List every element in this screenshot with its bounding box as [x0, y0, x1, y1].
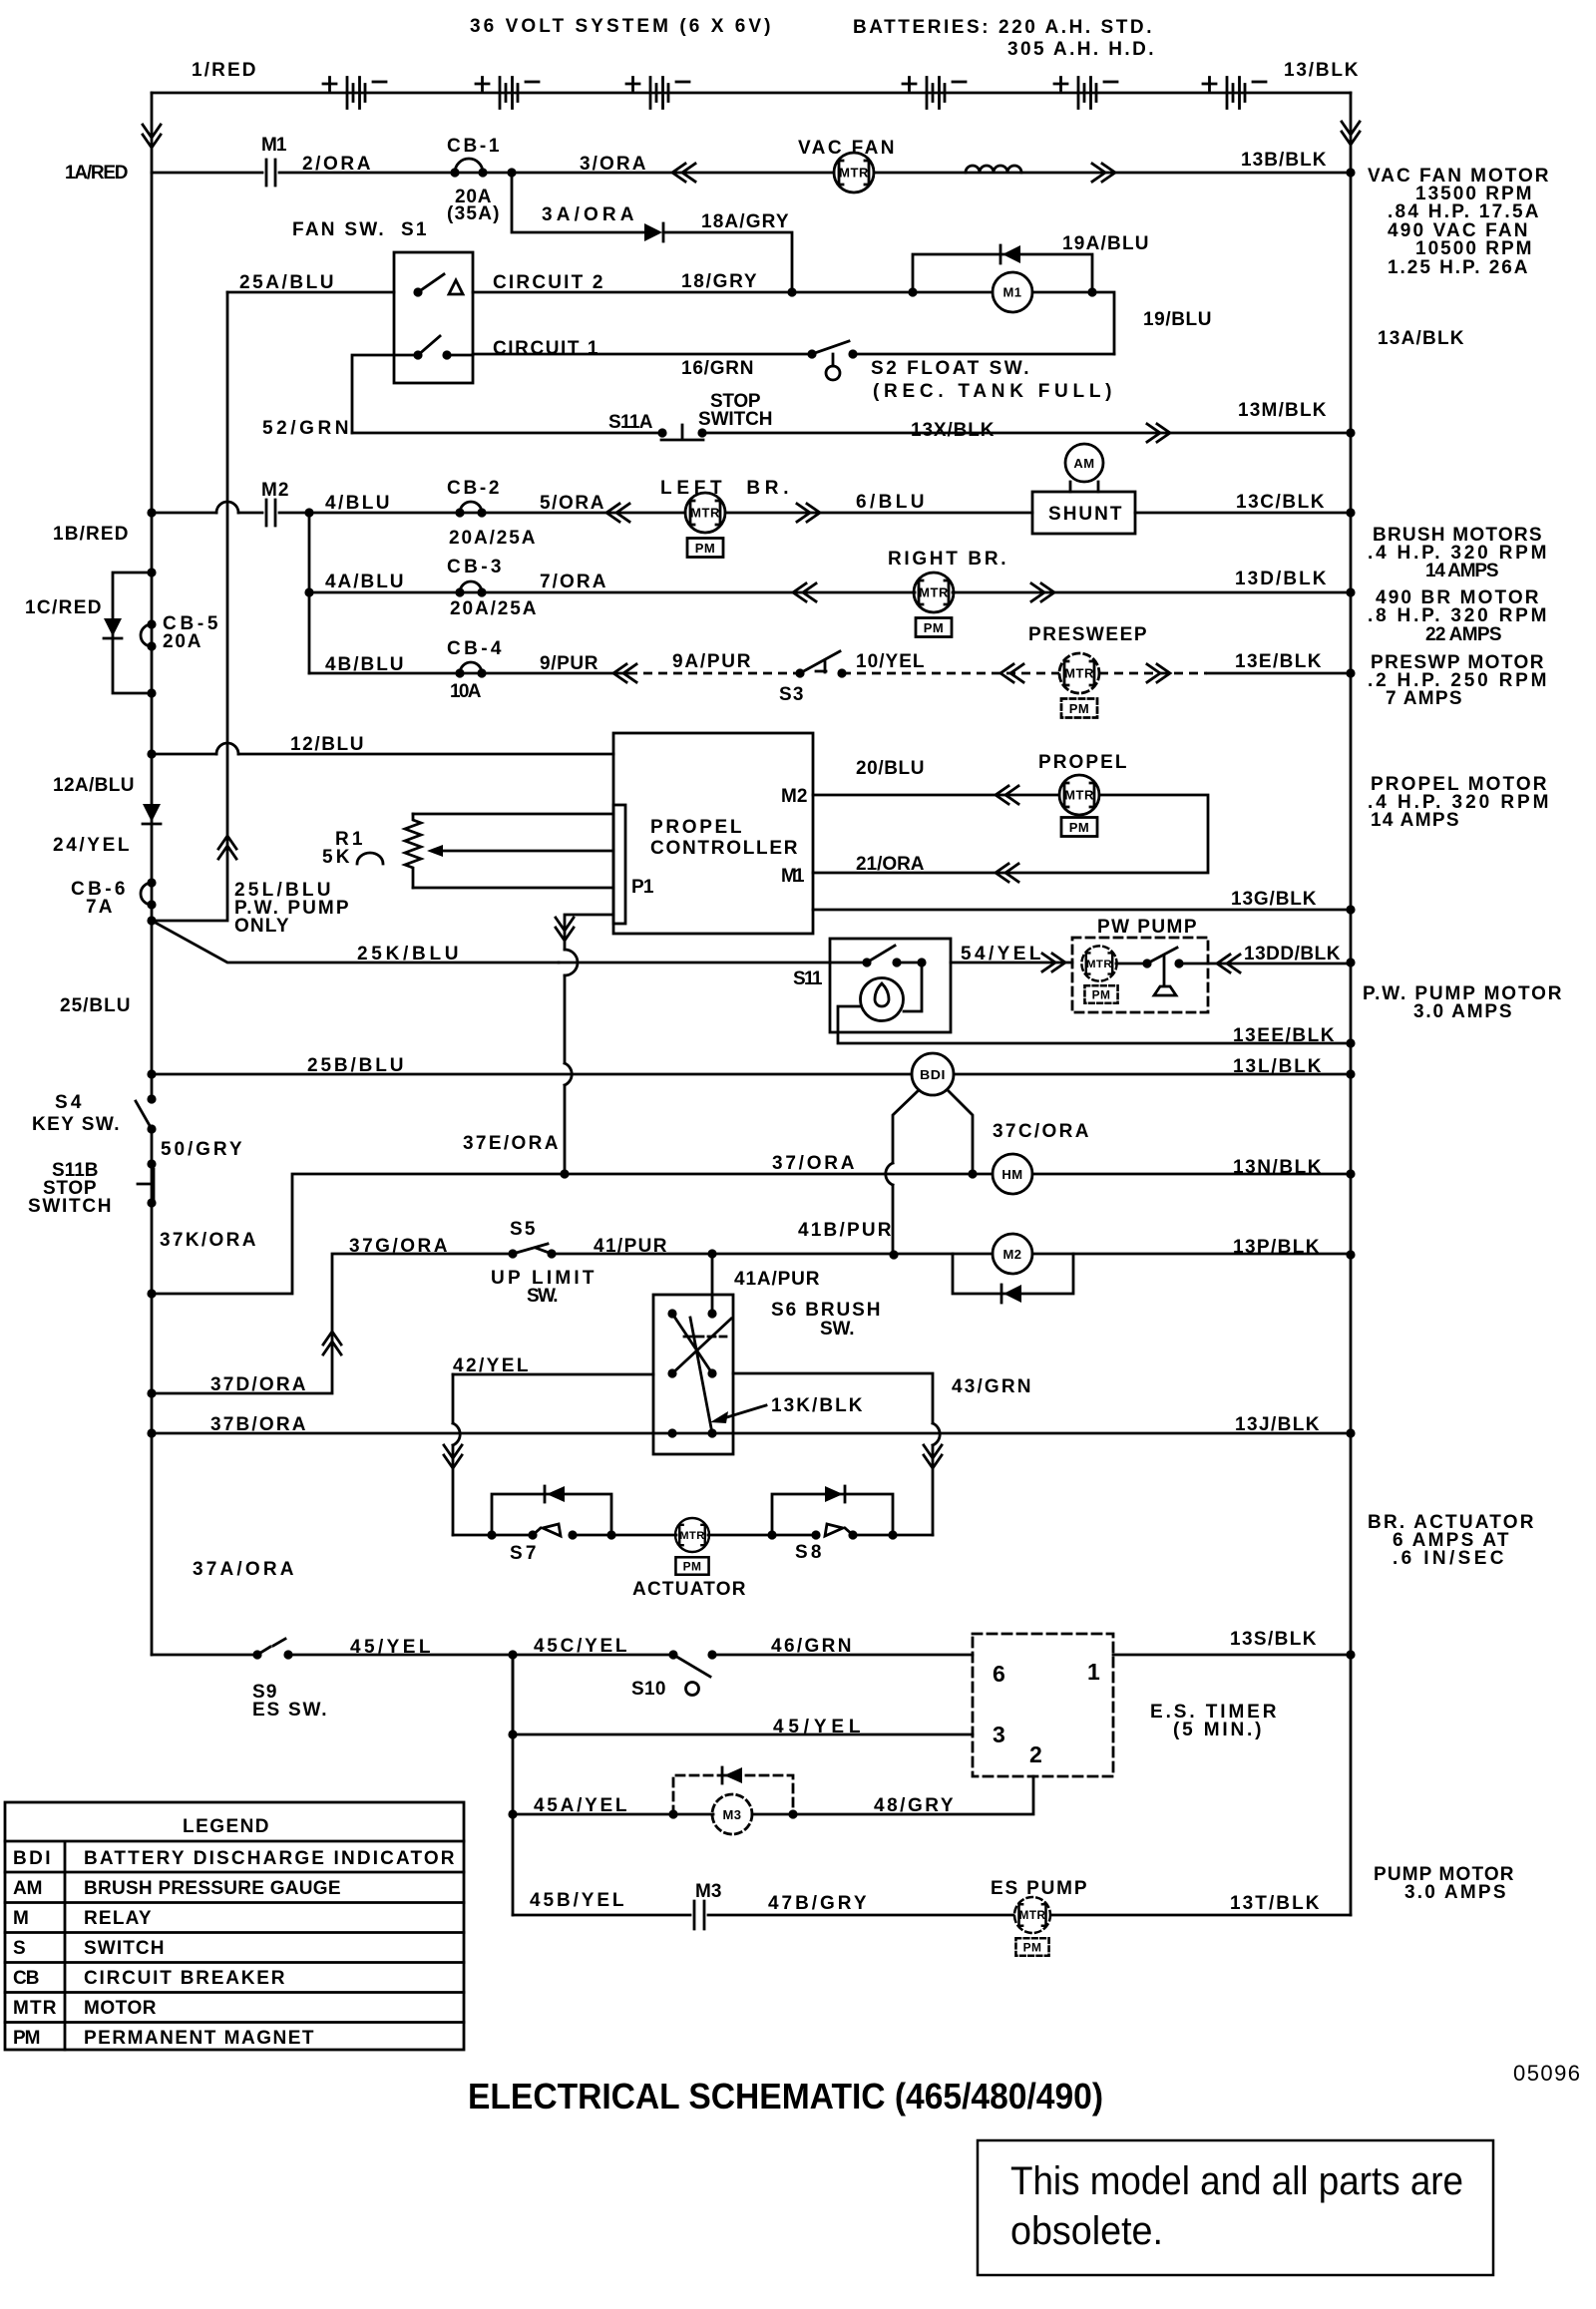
arrow up on riser — [218, 836, 236, 859]
svg-text:ES PUMP: ES PUMP — [991, 1878, 1088, 1899]
svg-text:1C/RED: 1C/RED — [25, 597, 103, 618]
svg-text:SWITCH: SWITCH — [698, 409, 774, 430]
relay coil M2 — [993, 1234, 1032, 1274]
svg-text:RIGHT BR.: RIGHT BR. — [888, 549, 1007, 570]
svg-text:13EE/BLK: 13EE/BLK — [1233, 1025, 1336, 1046]
svg-text:PROPEL: PROPEL — [1038, 752, 1128, 773]
svg-text:S11: S11 — [793, 968, 824, 989]
svg-text:13C/BLK: 13C/BLK — [1236, 492, 1326, 513]
wire row 4A/BLU CB-3 — [309, 591, 1351, 594]
junction node (514,1659) — [508, 1650, 517, 1659]
svg-text:3: 3 — [993, 1722, 1006, 1747]
arrow left 20/BLU — [996, 786, 1018, 804]
motor LEFT BR — [685, 493, 725, 533]
circuit breaker CB-4 — [460, 662, 482, 673]
svg-text:10A: 10A — [450, 681, 483, 702]
wire 37E/ORA from P1 — [565, 915, 613, 1174]
box S11 solution switch — [830, 939, 951, 1032]
wire 41A/PUR drop — [711, 1254, 714, 1314]
arrow right on row 1 — [1092, 164, 1115, 182]
svg-text:13A/BLK: 13A/BLK — [1378, 328, 1465, 349]
svg-text:BRUSH PRESSURE GAUGE: BRUSH PRESSURE GAUGE — [84, 1878, 342, 1899]
motor VAC FAN — [834, 153, 874, 192]
relay contact M1 — [266, 160, 275, 186]
svg-text:14 AMPS: 14 AMPS — [1371, 810, 1460, 831]
svg-text:10500 RPM: 10500 RPM — [1415, 238, 1533, 259]
svg-text:1B/RED: 1B/RED — [53, 524, 130, 545]
svg-text:This model and all parts are: This model and all parts are — [1010, 2159, 1463, 2203]
battery B2 — [476, 78, 539, 109]
junction node (1354,1177) — [1346, 1169, 1355, 1178]
hop over v228 — [216, 502, 238, 513]
legend table — [5, 1802, 464, 2050]
junction node (1354,173) — [1346, 168, 1355, 177]
wire BDI legs — [893, 1090, 973, 1255]
arrow left CB-2 row — [606, 504, 629, 522]
switch S8 — [811, 1530, 820, 1539]
wire 42/YEL row — [453, 1373, 933, 1535]
svg-text:S10: S10 — [631, 1679, 667, 1700]
svg-text:S: S — [13, 1938, 27, 1959]
arrow right CB-3 row — [1031, 583, 1054, 601]
wire 52/GRN row — [352, 432, 1351, 435]
junction node (1354,1258) — [1346, 1250, 1355, 1259]
junction node (514,1819) — [508, 1809, 517, 1818]
svg-text:05096: 05096 — [1513, 2061, 1580, 2086]
wire 13G/BLK — [813, 909, 1351, 912]
svg-text:(REC. TANK FULL): (REC. TANK FULL) — [873, 381, 1113, 402]
wire row 1A/RED to VAC FAN — [152, 172, 1351, 175]
wire row 45B/YEL — [513, 1914, 1351, 1917]
pm box pw pump — [1084, 985, 1117, 1002]
wire row 12/BLU — [147, 749, 156, 758]
wire 1/RED top bus — [152, 92, 1351, 95]
wire 25K/BLU diagonal — [152, 921, 559, 962]
junction node (1354,438) — [1346, 428, 1355, 437]
box S6 BRUSH SW — [653, 1295, 733, 1454]
switch S2 float — [807, 349, 816, 358]
junction node (674,1317) (714,1317) — [667, 1309, 676, 1318]
svg-text:4B/BLU: 4B/BLU — [325, 654, 405, 675]
junction node (461,514) (483,514) — [455, 508, 464, 517]
motor PROPEL — [1059, 775, 1099, 815]
wire drop to CB-3/CB-4 — [308, 513, 311, 673]
svg-text:3.0 AMPS: 3.0 AMPS — [1413, 1001, 1513, 1022]
svg-text:3A/ORA: 3A/ORA — [542, 204, 635, 225]
svg-text:20A/25A: 20A/25A — [450, 598, 538, 619]
svg-text:25B/BLU: 25B/BLU — [307, 1055, 405, 1076]
switch S11 contact — [862, 958, 871, 966]
arrow right 13X — [1147, 424, 1170, 442]
svg-text:AM: AM — [13, 1878, 44, 1899]
svg-text:37K/ORA: 37K/ORA — [160, 1230, 257, 1251]
shunt box — [1032, 492, 1135, 534]
relay contact M3 — [694, 1901, 704, 1929]
diode loop S7 — [492, 1494, 611, 1535]
svg-text:42/YEL: 42/YEL — [453, 1355, 530, 1376]
svg-text:P1: P1 — [631, 877, 655, 898]
svg-text:305 A.H. H.D.: 305 A.H. H.D. — [1007, 39, 1155, 60]
arrow left CB-3 row — [793, 583, 816, 601]
flyback loop 19A/BLU — [913, 254, 1092, 292]
diode D3 1C/RED — [104, 618, 122, 636]
svg-text:AM: AM — [1073, 456, 1094, 471]
switch S10 — [668, 1650, 677, 1659]
battery B6 — [1203, 78, 1266, 109]
svg-text:41A/PUR: 41A/PUR — [734, 1269, 821, 1290]
switch S4 key — [147, 1094, 156, 1103]
svg-text:M3: M3 — [722, 1807, 741, 1822]
switch S6 blades — [672, 1314, 731, 1433]
svg-text:19A/BLU: 19A/BLU — [1062, 233, 1150, 254]
battery B5 — [1054, 78, 1117, 109]
svg-text:CB-1: CB-1 — [447, 136, 501, 157]
arrow right presweep — [1147, 664, 1170, 682]
wire circuit1 left to 52/GRN — [352, 355, 418, 433]
dashed diode loop M3 — [673, 1775, 793, 1814]
svg-text:1.25 H.P. 26A: 1.25 H.P. 26A — [1388, 257, 1529, 278]
svg-text:PW PUMP: PW PUMP — [1097, 917, 1198, 938]
meter AM — [1065, 444, 1103, 482]
wire 37K/ORA riser — [147, 1289, 156, 1298]
svg-text:SWITCH: SWITCH — [84, 1938, 166, 1959]
svg-text:13L/BLK: 13L/BLK — [1233, 1056, 1323, 1077]
svg-text:13X/BLK: 13X/BLK — [911, 420, 996, 441]
wire 25A/BLU — [227, 291, 394, 294]
junction node (1150,966) (1182,966) — [1142, 959, 1151, 967]
svg-text:ONLY: ONLY — [234, 916, 290, 937]
svg-text:CB-2: CB-2 — [447, 478, 501, 499]
svg-text:6/BLU: 6/BLU — [856, 492, 926, 513]
svg-text:13B/BLK: 13B/BLK — [1241, 150, 1328, 171]
svg-text:MOTOR: MOTOR — [84, 1998, 158, 2019]
svg-text:.84 H.P. 17.5A: .84 H.P. 17.5A — [1388, 201, 1540, 222]
circuit breaker CB-6 — [141, 883, 152, 905]
svg-text:13M/BLK: 13M/BLK — [1238, 400, 1328, 421]
svg-text:BATTERY DISCHARGE INDICATOR: BATTERY DISCHARGE INDICATOR — [84, 1848, 456, 1869]
lamp S11 — [861, 978, 904, 1021]
circuit breaker CB-3 — [460, 581, 482, 592]
svg-text:25/BLU: 25/BLU — [60, 995, 132, 1016]
wire row 37B/ORA 13J/BLK — [147, 1428, 156, 1437]
svg-text:13E/BLK: 13E/BLK — [1235, 651, 1323, 672]
node junction 3/ORA — [507, 168, 516, 177]
svg-text:SW.: SW. — [820, 1319, 856, 1340]
pm box right br — [916, 618, 952, 637]
junction node (566,1177) — [560, 1169, 569, 1178]
box PW PUMP dashed — [1072, 938, 1208, 1012]
junction node (310,594) — [304, 587, 313, 596]
svg-text:S7: S7 — [510, 1543, 538, 1564]
svg-text:LEGEND: LEGEND — [183, 1816, 270, 1837]
switch S11A stop — [657, 428, 666, 437]
switch box FAN SW. S1 — [394, 252, 473, 383]
svg-text:CB-4: CB-4 — [447, 638, 503, 659]
svg-text:M2: M2 — [781, 786, 809, 807]
svg-text:47B/GRY: 47B/GRY — [768, 1893, 868, 1914]
svg-text:3.0 AMPS: 3.0 AMPS — [1404, 1882, 1507, 1903]
battery B3 — [626, 78, 689, 109]
pm box presweep dashed — [1061, 699, 1097, 718]
junction node (310,514) — [304, 508, 313, 517]
switch S1 circuit 1 contact — [413, 350, 422, 359]
junction node (1354,1659) — [1346, 1650, 1355, 1659]
svg-text:KEY SW.: KEY SW. — [32, 1114, 121, 1135]
svg-text:13D/BLK: 13D/BLK — [1235, 569, 1328, 589]
battery B4 — [903, 78, 966, 109]
obsolete note box — [978, 2140, 1493, 2275]
svg-text:13T/BLK: 13T/BLK — [1230, 1893, 1321, 1914]
pm box propel — [1061, 818, 1097, 837]
svg-text:25A/BLU: 25A/BLU — [239, 272, 335, 293]
wire 45/YEL to pin3 — [513, 1655, 973, 1734]
motor RIGHT BR — [914, 573, 954, 612]
svg-text:.8 H.P. 320 RPM: .8 H.P. 320 RPM — [1368, 605, 1548, 626]
svg-text:13N/BLK: 13N/BLK — [1233, 1157, 1323, 1178]
wire 45A/YEL row — [512, 1655, 515, 1915]
svg-text:1A/RED: 1A/RED — [65, 163, 130, 184]
junction node (152,923) — [147, 916, 156, 925]
svg-text:46/GRN: 46/GRN — [771, 1636, 853, 1657]
relay contact M2 — [266, 500, 275, 526]
wire left bus 1A/RED — [151, 93, 154, 1655]
relay coil M1 circle — [993, 272, 1032, 312]
svg-text:5K: 5K — [322, 847, 351, 868]
svg-text:ES SW.: ES SW. — [252, 1700, 328, 1721]
arrow left 9/PUR — [613, 664, 636, 682]
svg-text:20A: 20A — [163, 631, 202, 652]
switch in PW PUMP — [1116, 962, 1208, 965]
svg-text:S3: S3 — [779, 684, 805, 705]
svg-text:RELAY: RELAY — [84, 1908, 153, 1929]
svg-text:7A: 7A — [86, 897, 114, 918]
svg-text:PERMANENT MAGNET: PERMANENT MAGNET — [84, 2028, 315, 2049]
svg-text:24/YEL: 24/YEL — [53, 835, 131, 856]
relay coil M3 dashed — [712, 1794, 752, 1834]
junction node (493,1539) (613,1539) — [487, 1530, 496, 1539]
junction node (794,293) — [787, 287, 796, 296]
junction node (1354,675) — [1346, 668, 1355, 677]
wire 13DD/BLK — [1208, 962, 1351, 965]
svg-text:13J/BLK: 13J/BLK — [1235, 1414, 1321, 1435]
svg-text:PRESWEEP: PRESWEEP — [1028, 624, 1148, 645]
svg-text:1: 1 — [1087, 1659, 1101, 1685]
svg-text:CB-3: CB-3 — [447, 557, 503, 577]
svg-text:3/ORA: 3/ORA — [580, 154, 647, 175]
svg-text:SWITCH: SWITCH — [28, 1196, 113, 1217]
svg-text:S11A: S11A — [608, 412, 654, 433]
svg-text:M1: M1 — [781, 866, 806, 887]
motor ACTUATOR — [675, 1518, 709, 1552]
junction node (1354,965) — [1346, 958, 1355, 966]
wire 54/YEL — [951, 962, 1072, 964]
switch S7 — [528, 1530, 537, 1539]
svg-text:M1: M1 — [1002, 285, 1021, 300]
svg-text:21/ORA: 21/ORA — [856, 854, 926, 875]
junction node (1354,1077) — [1346, 1069, 1355, 1078]
svg-text:ELECTRICAL SCHEMATIC (465/480/: ELECTRICAL SCHEMATIC (465/480/490) — [468, 2076, 1103, 2117]
svg-text:(5 MIN.): (5 MIN.) — [1173, 1720, 1263, 1740]
svg-text:CIRCUIT BREAKER: CIRCUIT BREAKER — [84, 1968, 286, 1989]
circuit breaker CB-5 — [141, 624, 152, 646]
junction node (975,1177) — [968, 1169, 977, 1178]
svg-text:22 AMPS: 22 AMPS — [1425, 624, 1503, 645]
left bus down arrow — [143, 125, 161, 148]
junction node (461,594) (483,594) — [455, 587, 464, 596]
switch S3 — [795, 668, 804, 677]
wire M2 to propel motor — [813, 795, 1208, 873]
svg-text:9/PUR: 9/PUR — [540, 653, 599, 674]
junction node (152,885) (152,907) — [147, 878, 156, 887]
box ES TIMER dashed — [973, 1634, 1113, 1776]
svg-text:SHUNT: SHUNT — [1048, 504, 1123, 525]
meter HM hourmeter — [993, 1154, 1032, 1194]
svg-text:13/BLK: 13/BLK — [1284, 60, 1360, 81]
arrow right after motor — [797, 504, 820, 522]
arrow left presweep — [1000, 664, 1023, 682]
motor PRESWEEP dashed — [1059, 653, 1099, 693]
svg-text:M3: M3 — [695, 1881, 723, 1902]
junction node (456,173) (484,173) — [450, 168, 459, 177]
svg-text:12A/BLU: 12A/BLU — [53, 775, 136, 796]
pm box left br — [687, 539, 723, 558]
svg-text:M1: M1 — [261, 135, 288, 156]
wire 13C/BLK — [1135, 512, 1351, 515]
svg-text:7 AMPS: 7 AMPS — [1386, 688, 1463, 709]
wire right bus 13/BLK — [1350, 93, 1353, 1915]
junction node (1354,1046) — [1346, 1038, 1355, 1047]
svg-text:PROPEL: PROPEL — [650, 817, 743, 838]
svg-text:PM: PM — [13, 2028, 42, 2049]
motor PW PUMP dashed — [1081, 946, 1116, 980]
svg-text:13G/BLK: 13G/BLK — [1231, 889, 1318, 910]
svg-text:18A/GRY: 18A/GRY — [701, 211, 790, 232]
junction node (1354,594) — [1346, 587, 1355, 596]
svg-text:VAC FAN: VAC FAN — [798, 138, 896, 159]
svg-text:MTR: MTR — [13, 1998, 58, 2019]
meter BDI — [912, 1053, 954, 1095]
svg-text:13DD/BLK: 13DD/BLK — [1244, 944, 1342, 964]
svg-text:BATTERIES: 220 A.H. STD.: BATTERIES: 220 A.H. STD. — [853, 17, 1153, 38]
junction node (461,675) (483,675) — [455, 668, 464, 677]
svg-text:M2: M2 — [261, 480, 290, 501]
svg-text:BDI: BDI — [920, 1067, 946, 1082]
svg-text:HM: HM — [1001, 1167, 1022, 1182]
junction node (714,1257) — [707, 1249, 716, 1258]
junction node (1095,293) — [1087, 287, 1096, 296]
svg-text:S5: S5 — [510, 1219, 537, 1240]
wire 10/YEL dashed — [842, 672, 1059, 675]
svg-text:S4: S4 — [55, 1092, 83, 1113]
svg-text:13P/BLK: 13P/BLK — [1233, 1237, 1321, 1258]
battery B1 — [323, 78, 386, 109]
wire 3A/ORA branch — [512, 173, 792, 292]
svg-text:41/PUR: 41/PUR — [594, 1236, 668, 1257]
junction node (675,1819) (795,1819) — [668, 1809, 677, 1818]
hop over 25K — [565, 950, 578, 975]
circuit breaker CB-2 — [460, 502, 482, 513]
diode loop S8 — [772, 1494, 893, 1535]
arrow down 37E — [556, 918, 574, 941]
svg-text:9A/PUR: 9A/PUR — [672, 651, 752, 672]
hop over 25B — [565, 1063, 572, 1085]
wire 25K into box — [559, 962, 867, 964]
svg-text:M2: M2 — [1002, 1247, 1021, 1262]
wire 42/YEL drop — [452, 1374, 455, 1535]
resistor R1 potentiometer — [405, 814, 421, 888]
svg-text:41B/PUR: 41B/PUR — [798, 1220, 893, 1241]
wire row 25B/BLU 13L/BLK — [147, 1069, 156, 1078]
svg-text:obsolete.: obsolete. — [1010, 2209, 1163, 2253]
svg-text:48/GRY: 48/GRY — [874, 1795, 955, 1816]
diode D1 on 3A/ORA — [644, 223, 662, 241]
wire row 1B/RED — [147, 508, 156, 517]
svg-text:25K/BLU: 25K/BLU — [357, 944, 460, 964]
svg-text:S6 BRUSH: S6 BRUSH — [771, 1300, 882, 1321]
connector P1 strip — [613, 805, 625, 924]
svg-text:10/YEL: 10/YEL — [856, 651, 926, 672]
arrow left 21/ORA — [996, 864, 1018, 882]
junction node (152,626) (152,648) — [147, 619, 156, 628]
circuit breaker CB-1 — [455, 159, 483, 173]
svg-text:20/BLU: 20/BLU — [856, 758, 926, 779]
svg-text:ACTUATOR: ACTUATOR — [632, 1579, 747, 1600]
svg-text:13S/BLK: 13S/BLK — [1230, 1629, 1318, 1650]
wire row 45/YEL — [152, 1654, 973, 1657]
box PROPEL CONTROLLER U1 — [613, 733, 813, 934]
svg-text:16/GRN: 16/GRN — [681, 358, 755, 379]
svg-text:1/RED: 1/RED — [192, 60, 257, 81]
svg-text:S2 FLOAT SW.: S2 FLOAT SW. — [871, 358, 1030, 379]
svg-text:37D/ORA: 37D/ORA — [210, 1374, 307, 1395]
svg-text:52/GRN: 52/GRN — [262, 418, 350, 439]
junction node (774,1539) (895,1539) — [767, 1530, 776, 1539]
svg-text:43/GRN: 43/GRN — [952, 1376, 1032, 1397]
junction node (1354,912) — [1346, 905, 1355, 914]
wire 25A/BLU riser — [152, 292, 227, 921]
right bus down arrow — [1342, 122, 1360, 145]
svg-text:(35A): (35A) — [447, 203, 501, 224]
svg-text:CB: CB — [13, 1968, 41, 1989]
svg-text:5/ORA: 5/ORA — [540, 493, 605, 514]
svg-text:18/GRY: 18/GRY — [681, 271, 758, 292]
svg-text:19/BLU: 19/BLU — [1143, 309, 1213, 330]
svg-text:4A/BLU: 4A/BLU — [325, 572, 405, 592]
junction node (514,1739) — [508, 1730, 517, 1738]
svg-text:CIRCUIT 1: CIRCUIT 1 — [493, 338, 599, 359]
diode D2 19A/BLU — [1002, 245, 1020, 263]
svg-text:37E/ORA: 37E/ORA — [463, 1133, 560, 1154]
switch S11B stop — [147, 1159, 156, 1168]
junction node (1354,514) — [1346, 508, 1355, 517]
arrow left on row 1 — [672, 164, 695, 182]
svg-text:13K/BLK: 13K/BLK — [771, 1395, 864, 1416]
wire 13S/BLK — [1113, 1654, 1351, 1657]
junction node (674,1437) (714,1437) — [667, 1428, 676, 1437]
junction node (896,1258) — [889, 1250, 898, 1259]
svg-text:CIRCUIT 2: CIRCUIT 2 — [493, 272, 604, 293]
svg-text:4/BLU: 4/BLU — [325, 493, 391, 514]
wire row 4B/BLU CB-4 — [309, 672, 628, 675]
svg-text:37G/ORA: 37G/ORA — [349, 1236, 449, 1257]
motor ES PUMP dashed — [1014, 1897, 1050, 1933]
diode D4 24/YEL on bus — [143, 804, 161, 822]
svg-text:FAN SW. S1: FAN SW. S1 — [292, 219, 428, 240]
svg-text:SW.: SW. — [527, 1286, 560, 1307]
svg-text:37/ORA: 37/ORA — [772, 1153, 856, 1174]
breaker CB-5 branch — [147, 568, 156, 577]
svg-text:7/ORA: 7/ORA — [540, 572, 607, 592]
